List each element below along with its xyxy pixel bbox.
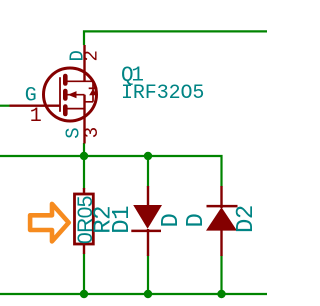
wire resistor bottom <box>83 254 85 295</box>
D1 cathode bar <box>131 230 161 233</box>
R2 pin bottom <box>83 244 85 254</box>
R2 pin top <box>83 188 85 194</box>
diode D1 <box>131 186 162 256</box>
Q1 drain pin 2 <box>83 45 85 81</box>
D1 pin bottom <box>147 229 149 256</box>
D2 pin top <box>220 186 222 208</box>
D2 pin bottom <box>220 230 222 256</box>
diode D2 <box>206 186 238 256</box>
transistor Q1 <box>10 45 98 144</box>
Q1 gate plate <box>59 77 61 112</box>
wire gate <box>0 105 10 107</box>
junction bottom-R2 <box>80 290 88 298</box>
svg-text:1: 1 <box>30 105 42 128</box>
wire D1 top <box>147 156 149 187</box>
svg-text:IRF32O5: IRF32O5 <box>121 82 204 105</box>
wire resistor top <box>83 156 85 189</box>
svg-text:D1: D1 <box>109 206 136 234</box>
Q1 channel bar bottom <box>63 107 68 115</box>
wire middle bus <box>0 156 222 187</box>
cursor arrow annotation <box>30 204 69 242</box>
svg-text:D: D <box>183 213 210 227</box>
svg-text:D2: D2 <box>233 205 260 233</box>
wire D1 bottom <box>147 256 149 295</box>
svg-text:2: 2 <box>81 50 103 61</box>
Q1 source arrow rail <box>68 94 85 96</box>
Q1 source pin 3 <box>83 95 85 144</box>
junction bottom-D2 <box>217 290 225 298</box>
wire D2 bottom <box>220 256 222 295</box>
R2 body rectangle <box>75 194 94 244</box>
Q1 source rail <box>66 108 85 110</box>
Q1 channel bar middle <box>63 91 68 99</box>
wire bottom bus <box>0 293 267 295</box>
Q1 body diode branch <box>85 81 94 102</box>
wire source <box>83 143 85 156</box>
D2 cathode bar <box>207 205 238 208</box>
Q1 body circle <box>44 68 97 121</box>
Q1 gate pin 1 <box>10 104 60 106</box>
D1 pin top <box>147 186 149 206</box>
Q1 source arrowhead <box>68 91 77 98</box>
D1 triangle <box>133 205 162 229</box>
svg-text:3: 3 <box>81 127 103 138</box>
svg-text:D: D <box>158 213 185 227</box>
wire drain top <box>84 31 267 45</box>
Q1 drain rail <box>65 80 93 82</box>
D2 triangle <box>206 207 237 230</box>
junction bottom-D1 <box>144 290 152 298</box>
Q1 body diode triangle <box>89 89 97 96</box>
junction middle-R2 <box>80 152 88 160</box>
Q1 body diode cathode bar <box>89 87 98 89</box>
resistor R2 <box>75 188 94 254</box>
Q1 channel bar top <box>63 76 68 84</box>
junction middle-D1 <box>144 152 152 160</box>
